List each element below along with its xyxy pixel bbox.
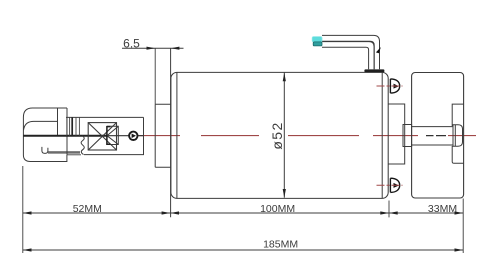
ext line 100/33 xyxy=(388,201,390,218)
threaded shaft section xyxy=(66,117,144,135)
motor body xyxy=(171,72,388,198)
red centerline xyxy=(137,135,476,137)
set screw diamond xyxy=(132,134,136,139)
front cap xyxy=(155,104,170,167)
wire 2 (lower/inner) xyxy=(322,42,374,70)
front seam xyxy=(176,73,178,199)
thread thick line xyxy=(71,117,73,135)
collet nut xyxy=(23,108,67,162)
ext line right end xyxy=(462,199,464,254)
dimension 6.5 xyxy=(122,37,184,105)
wire tip bright cyan xyxy=(312,37,322,42)
screw bottom xyxy=(377,178,403,192)
lower shaft lines behind nut xyxy=(48,152,81,155)
screw top xyxy=(377,79,403,93)
cable grommet xyxy=(364,69,384,72)
set screw circle xyxy=(129,132,137,140)
dimension diameter 52 xyxy=(269,73,286,198)
screw bottom centerline xyxy=(377,184,403,186)
svg-text:185MM: 185MM xyxy=(263,239,298,251)
wire 1 (upper/outer) xyxy=(322,35,380,69)
rear seam xyxy=(381,73,383,199)
svg-text:ø52: ø52 xyxy=(269,121,285,149)
black centerline dashes on rear shaft xyxy=(426,135,446,137)
shaft end cap xyxy=(453,125,463,146)
collet nut thick mid line xyxy=(23,135,107,137)
hub step on plate xyxy=(452,104,463,163)
rear housing xyxy=(388,104,404,164)
bearing small box thick edge xyxy=(107,127,111,145)
dimension 185MM xyxy=(23,239,463,252)
rear shaft collar xyxy=(403,125,412,147)
mounting plate xyxy=(412,73,464,199)
black centerline through bearing xyxy=(107,135,144,137)
svg-text:6.5: 6.5 xyxy=(123,37,140,51)
wrench notch U xyxy=(42,147,48,154)
shaft sleeve xyxy=(84,117,144,154)
front face / extension line xyxy=(170,48,172,217)
wire tip dark teal xyxy=(313,42,322,46)
bearing small box xyxy=(107,126,118,144)
bearing large box xyxy=(88,123,116,150)
svg-text:33MM: 33MM xyxy=(428,203,457,215)
small arrow mark on wire xyxy=(376,47,381,53)
arrows row1 xyxy=(23,211,463,214)
svg-text:52MM: 52MM xyxy=(73,203,102,215)
dimension line row xyxy=(23,212,463,214)
svg-text:100MM: 100MM xyxy=(260,203,295,215)
rear shaft xyxy=(412,127,453,145)
break squiggle xyxy=(81,136,84,155)
screw top centerline xyxy=(377,85,403,87)
ext line left end xyxy=(22,166,24,253)
